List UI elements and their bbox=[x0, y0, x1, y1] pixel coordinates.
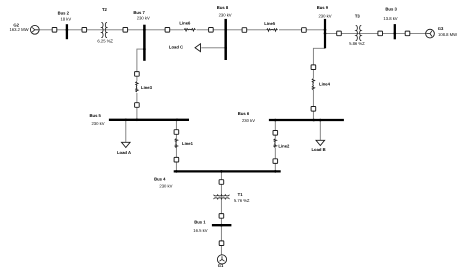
svg-text:Bus 7: Bus 7 bbox=[133, 10, 145, 15]
svg-text:230 kV: 230 kV bbox=[137, 16, 150, 21]
svg-text:230 kV: 230 kV bbox=[159, 183, 172, 188]
svg-text:Line4: Line4 bbox=[319, 81, 331, 86]
svg-text:Line1: Line1 bbox=[182, 141, 194, 146]
svg-text:G1: G1 bbox=[218, 263, 224, 268]
svg-text:G3: G3 bbox=[438, 26, 444, 31]
svg-text:Line6: Line6 bbox=[179, 21, 191, 26]
svg-text:18 kV: 18 kV bbox=[60, 17, 71, 22]
svg-text:Bus 9: Bus 9 bbox=[317, 5, 329, 10]
svg-text:230 kV: 230 kV bbox=[242, 118, 255, 123]
svg-text:T1: T1 bbox=[238, 192, 244, 197]
svg-text:163.2 MW: 163.2 MW bbox=[9, 27, 28, 32]
svg-text:Bus 5: Bus 5 bbox=[89, 113, 101, 118]
svg-text:Line5: Line5 bbox=[264, 21, 276, 26]
svg-text:5.76 %Z: 5.76 %Z bbox=[234, 198, 250, 203]
svg-text:T3: T3 bbox=[355, 14, 361, 19]
svg-text:16.5 kV: 16.5 kV bbox=[193, 228, 207, 233]
svg-text:Bus 4: Bus 4 bbox=[154, 177, 166, 182]
svg-text:Bus 2: Bus 2 bbox=[58, 10, 70, 15]
svg-text:Line2: Line2 bbox=[278, 144, 290, 149]
svg-text:108.8 MW: 108.8 MW bbox=[438, 32, 457, 37]
svg-text:Bus 3: Bus 3 bbox=[385, 7, 397, 12]
svg-text:Line3: Line3 bbox=[141, 85, 153, 90]
svg-text:5.86 %Z: 5.86 %Z bbox=[349, 41, 365, 46]
svg-text:Load C: Load C bbox=[169, 44, 183, 49]
svg-text:Bus 1: Bus 1 bbox=[194, 220, 206, 225]
svg-text:230 kV: 230 kV bbox=[91, 121, 104, 126]
svg-text:Bus 8: Bus 8 bbox=[217, 5, 229, 10]
svg-text:Bus 6: Bus 6 bbox=[238, 111, 250, 116]
svg-text:T2: T2 bbox=[102, 7, 108, 12]
svg-text:230 kV: 230 kV bbox=[318, 14, 331, 19]
svg-text:Load B: Load B bbox=[311, 147, 325, 152]
svg-text:6.25 %Z: 6.25 %Z bbox=[97, 39, 113, 44]
svg-text:Load A: Load A bbox=[117, 150, 131, 155]
svg-text:230 kV: 230 kV bbox=[219, 12, 232, 17]
svg-text:13.8 kV: 13.8 kV bbox=[383, 16, 397, 21]
